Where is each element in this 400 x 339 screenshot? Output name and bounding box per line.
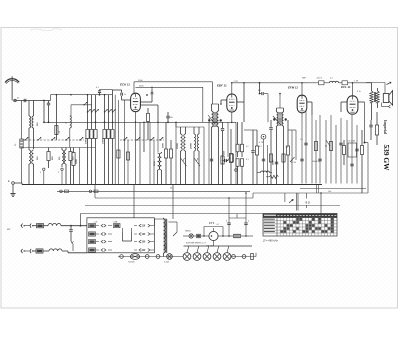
junction n6 (70, 225, 72, 227)
wire x204 (203, 127, 205, 185)
IF1 coil a (211, 104, 213, 111)
wire V2 grid (221, 99, 227, 101)
output xfmr core (373, 92, 375, 102)
wire det2 (288, 129, 296, 131)
wire V1 anode (140, 104, 158, 106)
wire x128 (127, 140, 129, 185)
svg-text:MP: MP (7, 229, 11, 231)
resistor R32 (73, 148, 75, 153)
svg-text:0,1 50: 0,1 50 (291, 162, 296, 164)
resistor R11 (165, 122, 167, 149)
wire V4 grid (341, 101, 347, 103)
trim cap T1 (181, 158, 187, 166)
wire V3 cath (301, 113, 303, 117)
coil L12 (185, 127, 187, 134)
terminal ANT (14, 99, 17, 102)
resistor R28 (269, 154, 272, 162)
wire x80 down (80, 214, 82, 226)
contact K1 (60, 190, 63, 193)
capacitor C21 (210, 158, 213, 160)
output xfmr winding a (370, 91, 373, 103)
wire V3 top (301, 83, 303, 95)
lamp small 1 (120, 255, 124, 259)
capacitor C7 (224, 159, 226, 162)
heater H4 (217, 246, 219, 253)
wire S1 link (43, 171, 45, 185)
mains plug P1 (21, 225, 22, 227)
fuse F8 (197, 234, 201, 238)
mains plug P2 (21, 250, 22, 252)
resistor R5 (91, 95, 93, 112)
svg-text:+255 V: +255 V (316, 78, 323, 80)
svg-text:10000 0,1: 10000 0,1 (312, 161, 320, 163)
resistor R30 (117, 150, 120, 158)
capacitor C15 (355, 148, 358, 150)
choke CH2 (43, 250, 49, 252)
jack J1 (261, 134, 266, 139)
heater H5 (227, 246, 229, 253)
wire osc bus (139, 122, 141, 184)
jack J2 (289, 200, 293, 203)
IF1 coil b (218, 104, 220, 111)
resistor R25 (251, 254, 254, 260)
capacitor C11 (300, 158, 303, 160)
wire x263 (263, 139, 265, 184)
junction n1 (43, 100, 45, 102)
wire L2 vert (33, 101, 35, 117)
selector contact right 3 (134, 249, 137, 251)
resistor R6 (95, 95, 97, 112)
wire x150 (149, 122, 151, 184)
junction n7 (56, 94, 58, 96)
svg-text:1 TR: 1 TR (234, 81, 239, 83)
AF choke (261, 171, 270, 173)
wire det top (244, 129, 257, 131)
xfmr bracket (169, 221, 178, 223)
transformer W1 (164, 218, 167, 220)
wire x56 vert (55, 95, 57, 140)
lamp small 2 (145, 255, 149, 259)
capacitor C13 (339, 142, 342, 144)
power wire (183, 235, 189, 237)
svg-text:0 2: 0 2 (306, 201, 311, 205)
resistor R2 (47, 152, 50, 161)
svg-text:0,15A: 0,15A (164, 261, 169, 264)
wire x115 (114, 95, 116, 185)
svg-text:20000: 20000 (177, 142, 179, 149)
svg-text:ECH 11: ECH 11 (120, 83, 130, 87)
AVC line (85, 205, 340, 207)
svg-text:ECL 11: ECL 11 (341, 85, 351, 89)
terminal E (12, 182, 15, 185)
capacitor C5 (167, 118, 169, 122)
resistor R3 (69, 152, 72, 161)
IF2 coil a (276, 108, 278, 112)
capacitor C9 (270, 120, 272, 127)
coil L14 (198, 127, 200, 134)
wire grid bus (44, 121, 236, 123)
switch contact S5b (66, 137, 69, 140)
resistor R19 (343, 146, 346, 155)
svg-text:4: 4 (226, 221, 227, 223)
switch contact S2 (25, 137, 28, 140)
selector fuse F4 (89, 232, 96, 236)
junction n3 (95, 121, 97, 123)
IF2 core (278, 112, 282, 114)
svg-text:0 TR: 0 TR (259, 142, 264, 144)
ground G1 (12, 184, 14, 191)
lamp small 3 (156, 255, 160, 259)
selector fuse F5 (89, 240, 96, 244)
resistor R20 (361, 146, 364, 155)
capacitor C23 (275, 161, 278, 163)
wire heater bottom (118, 256, 183, 258)
resistor R13a (236, 144, 239, 152)
wire x352 (351, 115, 353, 184)
wire jack v3 (306, 193, 308, 199)
svg-text:4: 4 (248, 221, 249, 223)
svg-text:100: 100 (328, 191, 331, 193)
coil L3 (28, 149, 30, 150)
svg-text:125/500: 125/500 (128, 262, 135, 264)
heater H3 (207, 246, 209, 253)
output xfmr winding b (376, 91, 379, 103)
bus comb lower (300, 188, 366, 190)
capacitor C4 (146, 94, 148, 96)
trim T6 (290, 157, 295, 162)
wire x331 (330, 115, 332, 184)
svg-text:0,1: 0,1 (330, 78, 333, 80)
wire x312 (311, 115, 313, 184)
wire x154 (153, 140, 155, 185)
capacitor C19 (245, 218, 247, 223)
capacitor C22 (262, 158, 265, 160)
svg-text:Imperial: Imperial (383, 120, 387, 134)
wire x357 (356, 125, 358, 184)
band switch shaft (22, 139, 84, 141)
IF2 top (277, 107, 284, 109)
selector fuse F3 (89, 224, 96, 228)
grid stub (71, 104, 92, 106)
contact S1b (61, 168, 63, 170)
tube V1 ECH 11 (131, 93, 141, 111)
wire x267 (267, 145, 269, 185)
svg-text:0,05 1,5M: 0,05 1,5M (347, 141, 355, 143)
svg-text:EBF 11: EBF 11 (217, 84, 227, 88)
fuse F7 (114, 224, 121, 228)
resistor R23 (375, 125, 378, 135)
antenna A1 (5, 79, 19, 83)
lamp small 5 (242, 255, 246, 259)
resistor R15b (229, 154, 232, 163)
wire x158b (157, 122, 159, 152)
trim T5 (226, 157, 231, 162)
wire down x173 (172, 185, 174, 220)
heater H1 (187, 246, 189, 253)
capacitor C20 (99, 94, 101, 96)
capacitor C12 (318, 158, 321, 160)
wire x236 (235, 122, 237, 184)
wire V2 anode (237, 101, 244, 103)
svg-text:1,5: 1,5 (300, 139, 303, 141)
fuse F2 (36, 249, 43, 253)
wire x320 (319, 115, 321, 184)
wire x79 (79, 148, 81, 185)
svg-text:L-St: L-St (94, 221, 98, 224)
wire jack v1 (284, 193, 286, 202)
coil L4 (32, 150, 34, 164)
resistor R1 (55, 126, 58, 135)
resistor R29 (282, 154, 285, 162)
coil L1 (29, 116, 31, 128)
svg-text:0,1: 0,1 (258, 90, 261, 92)
resistor R4 (87, 95, 89, 112)
svg-text:NSB50: NSB50 (185, 231, 191, 233)
switch contact S3 (38, 137, 41, 140)
wire x306 (305, 110, 307, 184)
resistor R24 (234, 234, 241, 238)
wire V4 top (352, 83, 354, 96)
junction n2 (43, 121, 45, 123)
selector bracket (123, 232, 132, 241)
pencil note (30, 29, 62, 31)
wire V2 cath (231, 112, 233, 122)
svg-text:10000: 10000 (85, 137, 87, 144)
switch S8 (71, 241, 73, 244)
wire down x240b (245, 193, 247, 218)
svg-text:100: 100 (170, 117, 173, 119)
wire caps top (229, 217, 246, 219)
capacitor C24 (20, 139, 23, 148)
resistor R7 (104, 95, 106, 112)
wire V3 anode (307, 101, 312, 103)
speaker LS (383, 94, 389, 103)
wire x125 (124, 100, 126, 185)
bypass loop (203, 227, 205, 237)
wire table top (81, 213, 264, 215)
wire antenna (16, 100, 50, 102)
IF1 top wire (212, 103, 219, 105)
resistor R18 (329, 142, 332, 151)
selector contact right 1 (134, 233, 137, 235)
dial lamp (130, 254, 139, 260)
selector contact right 2 (134, 241, 137, 243)
coil L6 (65, 148, 67, 151)
coil L11 (180, 127, 182, 134)
heater H2 (197, 246, 199, 253)
svg-text:L TR: L TR (354, 81, 359, 83)
wire V1 cath (135, 112, 137, 185)
wire L1 vert (28, 101, 30, 117)
wire x296 (295, 130, 297, 160)
wire x144 (143, 122, 145, 152)
wire osc top (176, 126, 204, 128)
svg-text:Zf = 468 kHz: Zf = 468 kHz (262, 239, 278, 243)
switch S5 (326, 140, 330, 146)
wire x336 (335, 125, 337, 184)
trim T3 (208, 115, 215, 124)
selector contact left 0 (96, 225, 100, 227)
svg-text:0,1: 0,1 (217, 224, 220, 226)
fuse F1 (37, 224, 44, 228)
switch contact S6b (80, 137, 83, 140)
tube V2 EBF 11 (227, 94, 237, 112)
AF zigzag (270, 175, 279, 178)
selector contact left 1 (96, 233, 100, 235)
coil L2 (32, 116, 34, 128)
wire x292 (291, 130, 293, 185)
resistor R12 (170, 140, 172, 149)
resistor R31 (126, 152, 129, 160)
wire down x95 (94, 185, 96, 199)
capacitor C10 (304, 142, 307, 144)
selector fuse F6 (89, 248, 96, 252)
valve table (263, 214, 337, 237)
wire right end (255, 253, 257, 257)
band bus left (22, 147, 96, 149)
wire anode right (364, 102, 366, 143)
lamp small 4 (232, 255, 236, 259)
wire rect down (213, 241, 215, 246)
wire pad cap (175, 122, 177, 184)
resistor R10 (147, 108, 149, 113)
resistor R17 (314, 142, 317, 151)
top bus 1 (134, 81, 212, 83)
top bus 3 (232, 82, 310, 84)
capacitor C17 (70, 226, 72, 229)
lamp NSB (189, 234, 193, 238)
capacitor C3 (259, 83, 261, 94)
switch contact S4 (52, 137, 55, 140)
resistor R27 (230, 154, 233, 162)
coil L13 (193, 127, 195, 134)
wire jack v4 (315, 185, 317, 194)
coil L10 (159, 153, 161, 170)
wire V1 grid (122, 99, 131, 101)
capacitor C14 (350, 163, 353, 165)
resistor R14b (240, 159, 243, 167)
switch S6 (167, 254, 173, 260)
coil L15 (70, 116, 72, 128)
wire x118 (117, 100, 119, 185)
resistor R26 (221, 156, 224, 164)
svg-text:0,1: 0,1 (96, 87, 99, 89)
IF2 coil b (283, 108, 285, 112)
wire V1 left (113, 89, 122, 91)
wire down x321 (320, 193, 322, 214)
svg-text:10000: 10000 (102, 137, 104, 144)
wire x302 (301, 117, 303, 184)
resistor R14a (240, 144, 243, 152)
heater bus (184, 245, 253, 247)
resistor R16 (287, 120, 289, 146)
junction n5 (167, 121, 169, 123)
wire xfmr top (154, 218, 163, 220)
contact K2 (89, 190, 92, 193)
resistor R9 (112, 95, 114, 112)
wire x316 (315, 120, 317, 184)
resistor R13b (236, 159, 239, 167)
bus mid (57, 190, 250, 192)
box B1 (348, 143, 357, 157)
capacitor C8 (252, 130, 254, 150)
wire left vert (21, 101, 23, 140)
capacitor C6 (222, 122, 224, 128)
bus B lower (95, 197, 253, 199)
switch row mid (124, 137, 127, 140)
capacitor C18 (228, 218, 230, 223)
selector contact left 2 (96, 241, 100, 243)
rectifier CY1 (209, 231, 218, 240)
svg-text:50000: 50000 (273, 160, 275, 165)
wire V2 top (231, 83, 233, 94)
svg-text:ECH EBF EFM ECL CY: ECH EBF EFM ECL CY (186, 243, 207, 245)
resistor R15 (256, 130, 258, 146)
trim cap T2 (194, 158, 200, 166)
chassis bus (22, 184, 322, 186)
svg-text:0,1: 0,1 (286, 147, 289, 149)
top feed components (310, 82, 319, 84)
selector contact right 0 (134, 225, 137, 227)
switch arrow spk (387, 82, 392, 85)
wire spk top (366, 82, 385, 84)
junction n4 (259, 82, 261, 84)
capacitor C1 (23, 99, 25, 102)
coil L9 (158, 153, 160, 170)
IF1 core (213, 112, 217, 114)
trim T4 (273, 116, 281, 125)
svg-text:0,1: 0,1 (246, 159, 249, 161)
choke CH1 (44, 225, 49, 227)
contact S7 (235, 169, 238, 172)
wire x228 (227, 122, 229, 157)
coil L5 (61, 148, 63, 151)
top bus 2 (136, 86, 203, 88)
svg-text:20000: 20000 (191, 142, 193, 149)
wire x341 (340, 118, 342, 184)
wire x347 (346, 120, 348, 184)
wire x326 (325, 120, 327, 184)
wire x209 (208, 122, 210, 184)
svg-text:EFM 11: EFM 11 (288, 86, 298, 90)
capacitor C2 (47, 102, 50, 104)
svg-text:5000: 5000 (224, 151, 226, 155)
selector box (87, 218, 154, 253)
capacitor C16 (369, 124, 372, 126)
svg-text:0,2: 0,2 (246, 146, 249, 148)
wire V4 anode (358, 101, 365, 103)
wire down x134 (133, 185, 135, 218)
tube V4 ECL 11 (347, 96, 358, 114)
svg-text:539 GW: 539 GW (382, 145, 391, 172)
contact S1a (43, 168, 45, 170)
speaker bracket (381, 103, 383, 107)
svg-text:0,5: 0,5 (259, 146, 262, 148)
bus 95 left (51, 94, 113, 96)
resistor R8 (108, 95, 110, 112)
wire jack v2 (295, 193, 297, 211)
svg-text:CY 1: CY 1 (209, 222, 215, 225)
tube V3 EFM 11 (297, 95, 307, 113)
selector contact left 3 (96, 249, 100, 251)
